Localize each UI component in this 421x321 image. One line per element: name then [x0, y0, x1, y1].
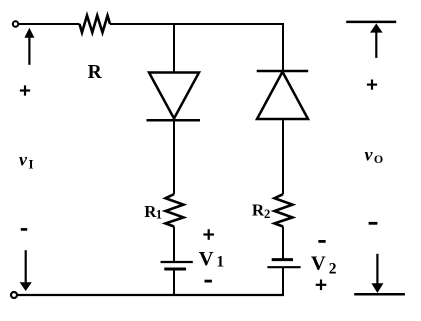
output + terminal bar (top-right) [346, 21, 396, 24]
diode D2 (cathode top, pointing up) [257, 71, 309, 119]
wire: corner down to diode D2 cathode [282, 23, 284, 71]
wire: node A to top-right corner [174, 23, 284, 25]
svg-text:2: 2 [264, 207, 270, 221]
resistor R2 [275, 194, 293, 226]
battery V1 (long + plate on top, short - plate below) [161, 262, 193, 269]
wire: input terminal to resistor R [19, 23, 80, 25]
vI - sign [21, 228, 27, 231]
battery V2 (short - plate on top, long + plate below) [267, 260, 300, 268]
input terminal (top-left) [13, 21, 18, 26]
svg-text:I: I [29, 157, 34, 172]
wire: R2 to battery V2 [282, 227, 284, 260]
vI up arrow [24, 28, 34, 65]
bottom rail wire [17, 294, 284, 296]
vO up arrow [370, 23, 383, 58]
resistor R [80, 16, 111, 33]
svg-text:R: R [88, 62, 103, 83]
V2 - sign [318, 240, 325, 243]
svg-text:V: V [311, 253, 326, 275]
wire: node A down to diode D1 anode [173, 24, 175, 73]
svg-text:2: 2 [329, 261, 337, 278]
label V2 [311, 253, 337, 278]
label vI [19, 149, 34, 171]
svg-text:O: O [374, 152, 383, 166]
label V1 [199, 248, 224, 271]
svg-text:V: V [199, 248, 214, 270]
svg-text:1: 1 [156, 208, 162, 222]
label R1 [144, 202, 162, 222]
vI down arrow [20, 250, 32, 291]
vO + sign [367, 80, 377, 90]
wire: D1 cathode to resistor R1 [173, 120, 175, 194]
vI + sign [20, 85, 30, 95]
wire: resistor R to node A [110, 23, 174, 25]
vO - sign [369, 222, 378, 225]
label R2 [252, 201, 270, 221]
wire: V1 to bottom rail [173, 269, 175, 295]
wire: D2 anode to resistor R2 [282, 119, 284, 194]
wire: R1 to battery V1 [173, 227, 175, 263]
svg-text:R: R [252, 201, 265, 220]
input terminal (bottom-left) [11, 292, 17, 298]
V1 + sign [203, 229, 214, 240]
label vO [365, 145, 384, 167]
svg-text:1: 1 [216, 254, 224, 271]
V2 + sign [316, 280, 327, 291]
resistor R1 [166, 194, 184, 226]
wire: V2 to bottom rail [282, 267, 284, 296]
vO down arrow [371, 254, 383, 293]
svg-text:v: v [365, 145, 374, 165]
V1 - sign [205, 280, 212, 283]
diode D1 (anode top, pointing down) [147, 73, 201, 121]
svg-text:v: v [19, 149, 28, 169]
output - terminal bar (bottom-right) [354, 293, 405, 296]
